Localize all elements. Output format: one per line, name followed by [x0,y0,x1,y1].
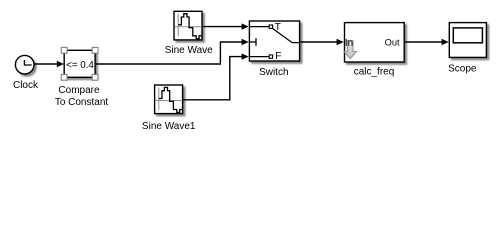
selection handle top-left [61,47,67,53]
switch F port square [269,55,272,58]
sine1 icon horizontal axis [156,100,183,102]
svg-text:Scope: Scope [448,64,477,75]
svg-text:calc_freq: calc_freq [354,67,395,78]
svg-text:In: In [345,38,353,49]
svg-text:Out: Out [385,38,400,48]
switch control criteria bar [255,38,257,46]
sine icon vertical axis [177,14,179,36]
svg-text:Sine Wave: Sine Wave [165,45,213,56]
svg-text:To Constant: To Constant [55,97,109,108]
switch T input stub [249,26,269,28]
clock hands [24,60,31,65]
input data badge arrow [344,41,357,59]
wire Sine Wave1 to Switch F input [183,57,242,100]
switch control input stub [249,41,255,43]
wire Clock to Compare To Constant [34,63,58,65]
scope screen [453,28,482,43]
sine1 icon vertical axis [158,88,160,110]
sine1 icon staircase [159,87,182,112]
block Sine Wave [174,11,202,40]
svg-text:Clock: Clock [13,80,39,91]
wire Switch to calc_freq [300,41,337,43]
wire Compare To Constant to Switch control input [96,42,243,64]
selection handle top-right [92,47,98,53]
block Switch [249,21,299,61]
sine icon staircase [178,14,201,39]
selection handle bottom-left [61,74,67,80]
svg-text:Compare: Compare [58,85,100,96]
svg-text:<= 0.4: <= 0.4 [66,60,94,71]
sine icon horizontal axis [175,26,202,28]
wire Sine Wave to Switch T input [203,26,243,28]
switch T port square [269,25,272,28]
wire calc_freq to Scope [405,41,442,43]
block Compare To Constant [64,50,95,77]
block Scope [449,23,486,58]
svg-text:F: F [275,51,281,62]
block calc_freq [345,23,405,62]
switch F input stub [249,56,269,58]
block Sine Wave1 [155,85,183,114]
svg-text:Switch: Switch [259,67,288,78]
switch throw diagonal [273,29,300,43]
block Clock [15,55,34,74]
selection handle bottom-right [92,74,98,80]
svg-text:Sine Wave1: Sine Wave1 [142,121,196,132]
